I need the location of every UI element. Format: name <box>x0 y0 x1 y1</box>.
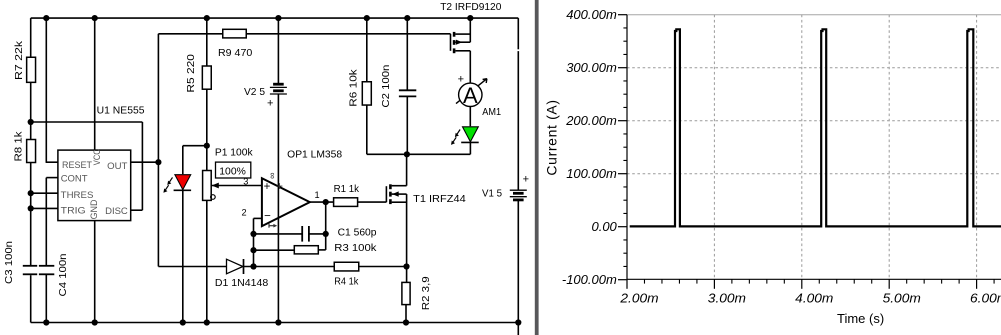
svg-text:VCC: VCC <box>92 149 103 165</box>
svg-text:RESET: RESET <box>62 160 92 171</box>
svg-text:C4 100n: C4 100n <box>58 254 69 297</box>
svg-text:1: 1 <box>314 190 319 200</box>
svg-text:+: + <box>276 181 283 193</box>
svg-text:5.00m: 5.00m <box>883 290 921 305</box>
svg-text:∞: ∞ <box>267 172 277 178</box>
svg-text:2: 2 <box>241 208 246 218</box>
svg-text:R8 1k: R8 1k <box>13 130 24 161</box>
svg-text:6.00m: 6.00m <box>970 290 1001 305</box>
svg-text:D1 1N4148: D1 1N4148 <box>215 278 269 289</box>
svg-text:3.00m: 3.00m <box>708 290 746 305</box>
svg-text:R4 1k: R4 1k <box>334 276 359 287</box>
svg-text:-100.00m: -100.00m <box>562 272 617 287</box>
svg-text:100%: 100% <box>219 166 246 178</box>
svg-text:400.00m: 400.00m <box>566 7 617 22</box>
svg-text:300.00m: 300.00m <box>566 60 617 75</box>
svg-text:R1 1k: R1 1k <box>334 184 360 195</box>
svg-text:+: + <box>264 181 271 193</box>
svg-text:+: + <box>523 174 529 186</box>
svg-text:TRIG: TRIG <box>61 205 86 216</box>
svg-text:Current (A): Current (A) <box>544 99 560 175</box>
svg-text:2.00m: 2.00m <box>619 290 658 305</box>
svg-text:P1 100k: P1 100k <box>215 148 254 159</box>
svg-text:OP1 LM358: OP1 LM358 <box>287 149 342 160</box>
svg-text:R5 220: R5 220 <box>186 54 197 93</box>
svg-text:3: 3 <box>243 177 248 187</box>
svg-text:R6 10k: R6 10k <box>349 68 360 107</box>
svg-text:200.00m: 200.00m <box>565 113 617 128</box>
svg-text:100.00m: 100.00m <box>566 166 617 181</box>
svg-text:A: A <box>463 83 478 108</box>
svg-text:U1 NE555: U1 NE555 <box>97 106 145 117</box>
svg-text:T1 IRFZ44: T1 IRFZ44 <box>413 194 466 205</box>
svg-text:−: − <box>264 210 271 222</box>
svg-text:CONT: CONT <box>61 174 88 185</box>
svg-text:OUT: OUT <box>107 161 127 172</box>
svg-text:C1 560p: C1 560p <box>338 227 377 238</box>
svg-text:R7 22k: R7 22k <box>14 40 25 80</box>
svg-text:C2 100n: C2 100n <box>381 65 392 108</box>
svg-text:4.00m: 4.00m <box>795 290 833 305</box>
svg-text:+: + <box>267 97 273 109</box>
svg-text:R9 470: R9 470 <box>218 48 253 59</box>
svg-text:0.00: 0.00 <box>591 219 617 234</box>
svg-text:V1 5: V1 5 <box>482 189 502 200</box>
svg-text:+: + <box>458 74 464 86</box>
svg-text:C3 100n: C3 100n <box>4 241 15 284</box>
svg-text:R3 100k: R3 100k <box>334 243 377 254</box>
svg-text:DISC: DISC <box>105 206 128 217</box>
svg-text:V2 5: V2 5 <box>244 87 265 98</box>
svg-text:AM1: AM1 <box>482 107 501 118</box>
svg-text:R2 3,9: R2 3,9 <box>421 276 432 310</box>
svg-text:Time (s): Time (s) <box>837 311 884 326</box>
svg-text:GND: GND <box>89 199 100 219</box>
svg-text:T2 IRFD9120: T2 IRFD9120 <box>440 2 502 13</box>
